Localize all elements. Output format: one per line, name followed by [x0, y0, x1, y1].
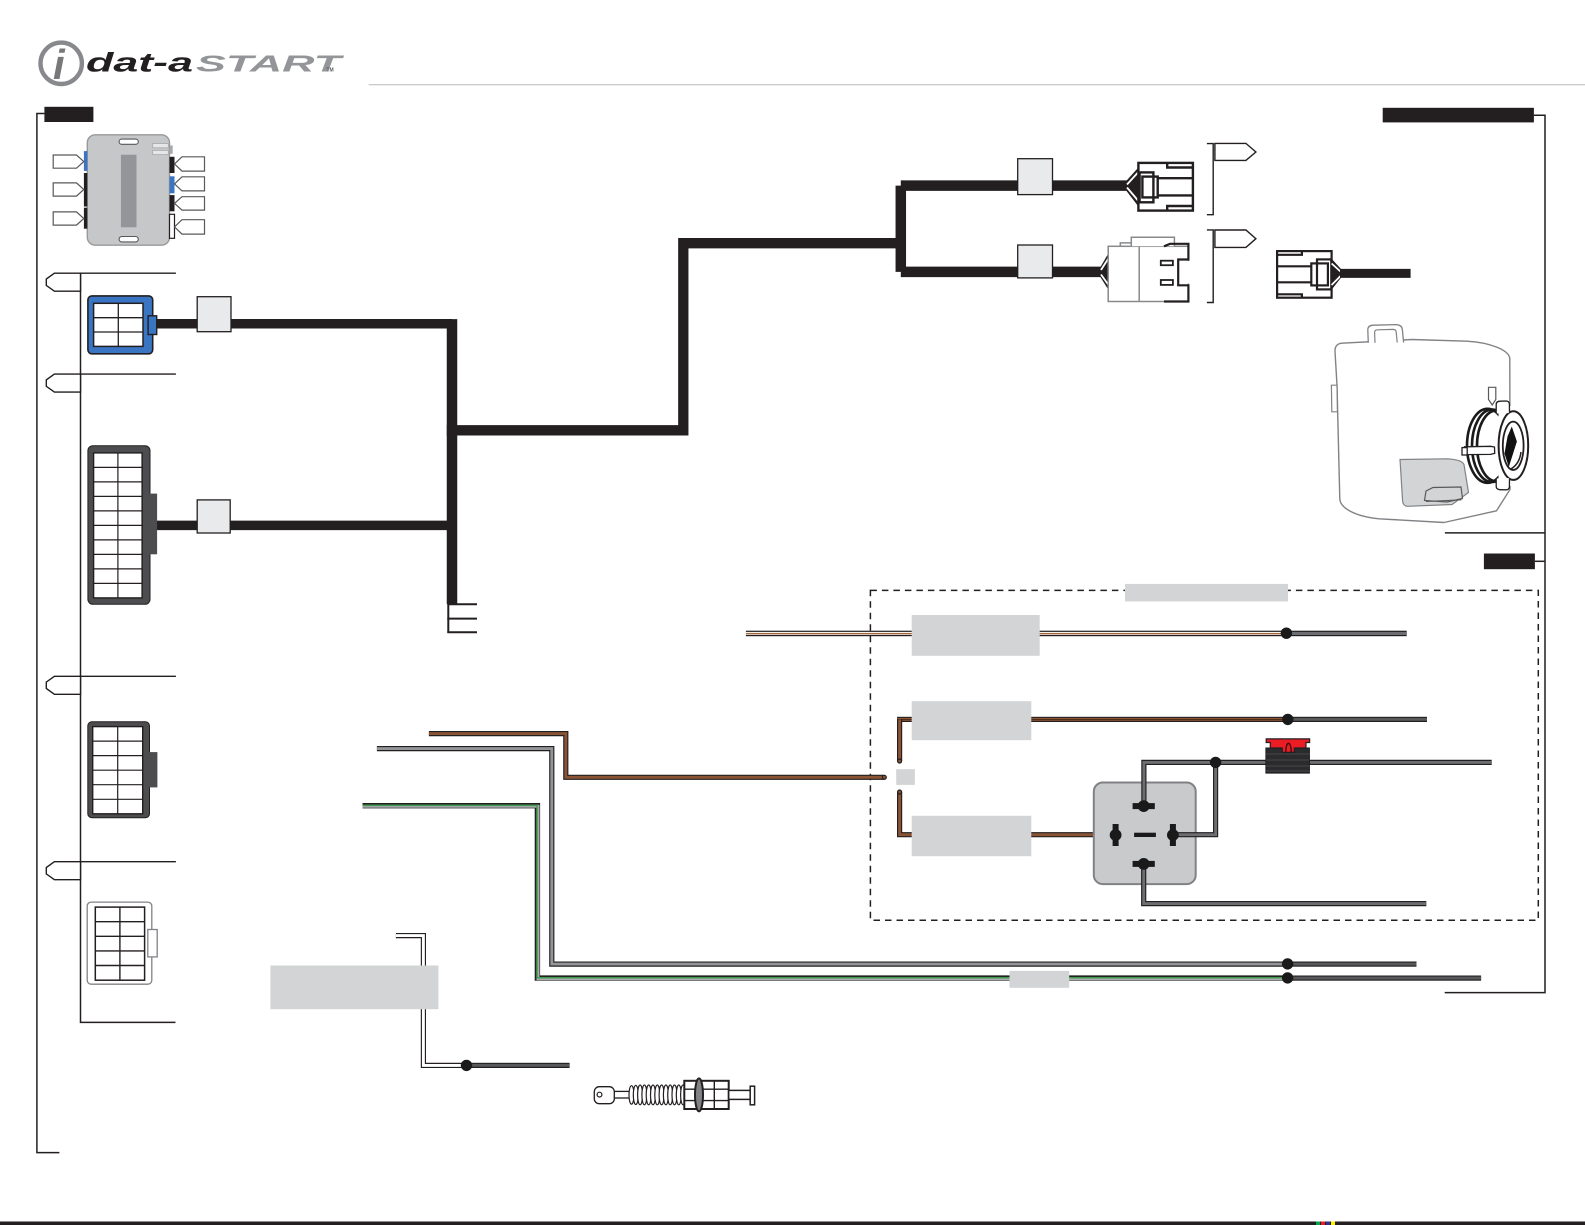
- wire from connector C: [1340, 269, 1411, 278]
- fused wire: [1216, 760, 1492, 765]
- module flag R4: [175, 220, 205, 234]
- module right pin 1: [170, 157, 175, 173]
- module flag L3: [53, 212, 84, 225]
- wire B dot: [1282, 972, 1293, 983]
- brown vertical segment A: [897, 719, 902, 761]
- connector C1 blue: [88, 296, 157, 354]
- module left pin 2: [84, 173, 87, 207]
- label 3 in dashed box: [912, 816, 1032, 856]
- dashed box title bar grey: [1125, 584, 1288, 602]
- fan to connector A: [1127, 168, 1139, 207]
- bottom branch wire: [901, 267, 1102, 278]
- label box bottom branch: [1018, 245, 1053, 278]
- dark crescent: [1505, 427, 1517, 468]
- label on wire B: [1010, 971, 1070, 988]
- right leader line: [1445, 115, 1545, 992]
- label on wire 2: [197, 500, 230, 533]
- wire junction to right pin: [1178, 762, 1216, 834]
- bottom tab: [1496, 478, 1509, 490]
- module flag L2: [53, 183, 84, 196]
- junction cover square: [896, 769, 915, 785]
- title bar top-left: [44, 107, 93, 122]
- pipe through ribs: [1465, 446, 1495, 454]
- wire 2 grey end: [1288, 717, 1427, 722]
- relay K1: [1094, 783, 1196, 885]
- svg-text:dat-a: dat-a: [86, 48, 193, 78]
- white wire end grey: [467, 1063, 570, 1068]
- relay pins: [1110, 800, 1179, 870]
- wire A dot: [1282, 958, 1293, 969]
- module right pin 4 white: [170, 214, 175, 238]
- main harness wire from C1 to trunk: [155, 319, 452, 329]
- label box top branch: [1018, 159, 1053, 195]
- junction dot wire1: [1281, 628, 1292, 639]
- harness split vertical: [896, 186, 907, 272]
- wire 1 white/brown stripe: [746, 631, 1287, 637]
- control module U1: [87, 135, 172, 245]
- fan from connector C: [1332, 259, 1341, 290]
- wire A end: [1288, 962, 1417, 967]
- ground symbol: [447, 604, 477, 632]
- title bar top-right: [1383, 108, 1534, 123]
- wire A grey: [377, 749, 1288, 965]
- module left pin blue: [84, 151, 87, 171]
- title bar right: [1484, 554, 1535, 570]
- down arrow: [1489, 387, 1496, 405]
- callout flag 2: [46, 374, 176, 392]
- flag A: [1215, 143, 1256, 160]
- junction dot wire2: [1282, 714, 1293, 725]
- label 4: [270, 966, 438, 1010]
- connector C 2-pin to heater: [1277, 251, 1332, 298]
- module flag R1: [175, 157, 205, 171]
- svg-text:START: START: [196, 51, 344, 77]
- heater leader bottom line: [1445, 532, 1545, 534]
- callout flag 3: [46, 676, 176, 694]
- wire 1 grey end: [1286, 631, 1406, 637]
- module flag R2: [175, 177, 205, 191]
- wire B green stripe: [363, 806, 1288, 978]
- leader line left: [37, 114, 60, 1153]
- harness boundary line: [81, 273, 176, 1022]
- junction dot relay: [1210, 757, 1221, 768]
- module flag L1: [53, 155, 84, 168]
- wire B end: [1288, 976, 1482, 981]
- dashed boundary box: [870, 590, 1538, 920]
- heater unit: [1331, 325, 1528, 523]
- label on wire 1: [197, 297, 231, 332]
- connector C3 dark 6-pin: [88, 722, 158, 818]
- blower face ring: [1499, 411, 1529, 480]
- module right pin 3: [170, 195, 175, 211]
- callout flag 1: [46, 273, 176, 291]
- branch wire to top right: [447, 243, 901, 430]
- module flag R3: [175, 197, 205, 210]
- bracket 2: [1207, 230, 1213, 303]
- fan to connector B: [1101, 252, 1110, 291]
- white wire dot: [461, 1060, 472, 1071]
- incoming brown wire: [429, 734, 884, 778]
- white wire: [396, 936, 467, 1066]
- wire 2 brown: [897, 717, 1288, 722]
- grey pocket: [1400, 459, 1469, 507]
- svg-text:i: i: [53, 41, 66, 88]
- connector C4 light 5-pin: [87, 902, 157, 984]
- svg-text:TM: TM: [327, 68, 334, 74]
- callout flag 4: [46, 862, 176, 880]
- label 1 in dashed box: [912, 615, 1040, 656]
- flag B: [1215, 230, 1256, 247]
- connector B: [1108, 237, 1190, 301]
- label 2 in dashed box: [912, 701, 1032, 740]
- connector A 2-pin: [1138, 163, 1193, 211]
- bracket 1: [1207, 144, 1213, 215]
- top tab: [1496, 401, 1509, 414]
- module left pin 3: [84, 208, 87, 229]
- connector C2 dark 10-pin: [88, 446, 157, 605]
- blower rib rings: [1467, 409, 1508, 483]
- footer bar: [0, 1222, 1585, 1225]
- header rule: [369, 84, 1585, 85]
- title bar right leader: [1535, 560, 1545, 562]
- module right pin blue: [170, 176, 175, 193]
- trunk wire down to ground: [447, 319, 458, 604]
- brown vertical segment B: [900, 792, 1110, 835]
- logo idatastart: [41, 41, 345, 88]
- registration marks: [1316, 1222, 1320, 1225]
- wire from C2: [155, 521, 452, 531]
- top branch wire: [901, 180, 1128, 191]
- relay top pin wire: [1144, 762, 1216, 806]
- glow plug: [594, 1078, 754, 1111]
- relay bottom pin wire: [1144, 864, 1427, 904]
- fuse F1: [1266, 739, 1310, 773]
